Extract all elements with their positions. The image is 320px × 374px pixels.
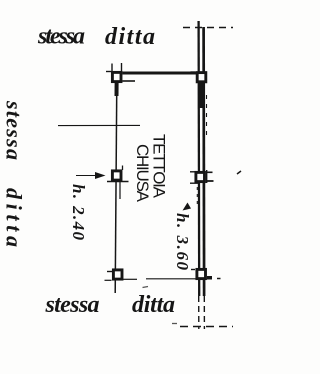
svg-text:h. 2.40: h. 2.40 (69, 184, 88, 241)
svg-text:ditta: ditta (1, 188, 26, 247)
svg-text:ditta: ditta (132, 292, 175, 318)
svg-text:CHIUSA: CHIUSA (133, 144, 152, 203)
svg-text:ditta: ditta (105, 24, 155, 50)
svg-text:stessa: stessa (45, 292, 100, 318)
svg-text:stessa: stessa (37, 24, 85, 50)
svg-text:h. 3.60: h. 3.60 (173, 213, 192, 271)
svg-text:stessa: stessa (1, 100, 26, 160)
